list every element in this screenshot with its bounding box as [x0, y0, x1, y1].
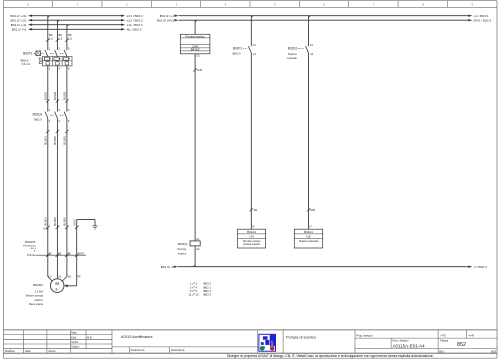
manual switch B02S1: [287, 16, 316, 230]
svg-text:B01.2/ -L21: B01.2/ -L21: [11, 18, 27, 22]
wire bus L31 with source/destination arrows: [11, 14, 143, 18]
svg-text:Verific.: Verific.: [71, 341, 79, 344]
svg-text:BK: BK: [49, 254, 53, 256]
wire phase 1 mid segment with label BL501: [44, 66, 50, 112]
svg-text:3: 3: [58, 108, 60, 112]
svg-text:1,5: 1,5: [49, 37, 53, 41]
contactor coil B52Q1: [177, 237, 200, 267]
svg-text:pompa scarico: pompa scarico: [243, 242, 260, 246]
svg-text:Rese vasca: Rese vasca: [29, 302, 44, 306]
svg-text:+ PG: + PG: [440, 334, 446, 338]
svg-text:5: 5: [274, 2, 276, 6]
svg-text:24V1 / B03.3: 24V1 / B03.3: [473, 18, 491, 22]
svg-text:B52W1: B52W1: [25, 240, 35, 244]
terminal strip X1: [43, 226, 69, 231]
svg-text:6: 6: [68, 67, 70, 71]
wire bus N1: [12, 28, 142, 32]
wire phase 2 mid segment with label BL502: [53, 66, 59, 112]
contactor B02Q1 main contacts: [33, 108, 70, 123]
svg-text:B02Q1: B02Q1: [33, 112, 43, 116]
svg-text:Elab.: Elab.: [71, 336, 77, 339]
svg-text:B03: B03: [491, 349, 496, 353]
PLC input box B41A1 scarico manuale: [294, 225, 322, 248]
svg-text:-M1: -M1: [253, 208, 258, 212]
svg-text:12: 12: [195, 293, 199, 297]
svg-text:Pompa: Pompa: [177, 247, 186, 251]
svg-text:PE: PE: [77, 275, 81, 278]
svg-text:9: 9: [472, 2, 474, 6]
svg-text:1,3 kW: 1,3 kW: [35, 289, 44, 293]
copyright note: [227, 354, 434, 358]
wire phase 3 top segment: [66, 25, 68, 50]
svg-text:BK: BK: [49, 33, 53, 37]
svg-text:1,5: 1,5: [68, 37, 72, 41]
svg-text:3~: 3~: [55, 287, 59, 291]
svg-text:14: 14: [253, 52, 256, 56]
svg-text:B01: B01: [439, 349, 444, 353]
svg-text:6: 6: [68, 119, 70, 123]
svg-text:5: 5: [68, 108, 70, 112]
svg-text:Prog. disegno:: Prog. disegno:: [356, 334, 373, 338]
svg-text:= HF: = HF: [468, 334, 474, 338]
svg-text:SAIT: SAIT: [270, 341, 274, 347]
svg-text:BL502: BL502: [53, 91, 57, 100]
svg-text:BK: BK: [68, 33, 72, 37]
svg-text:/B02.0: /B02.0: [232, 52, 241, 56]
svg-text:scarico: scarico: [34, 298, 43, 302]
svg-text:B52Q1: B52Q1: [178, 242, 188, 246]
svg-text:B41A1: B41A1: [247, 230, 256, 234]
ground earth symbol: [92, 226, 97, 229]
wire phase 1 top segment: [47, 16, 49, 50]
svg-text:2: 2: [49, 67, 51, 71]
title block right section: [286, 330, 497, 354]
svg-text:scarico: scarico: [178, 252, 187, 256]
svg-text:V1: V1: [58, 275, 62, 278]
svg-text:4: 4: [225, 2, 227, 6]
svg-text:Origine: Origine: [71, 346, 80, 349]
svg-text:-L21 / B03.3: -L21 / B03.3: [126, 18, 143, 22]
wire phase 3 mid segment with label BL503: [63, 66, 69, 112]
svg-text:manuale: manuale: [287, 56, 298, 60]
svg-text:BL504: BL504: [44, 217, 48, 226]
svg-text:M: M: [55, 281, 59, 286]
wire bus L1: [160, 14, 489, 18]
svg-text:7: 7: [373, 2, 375, 6]
svg-text:13: 13: [310, 43, 313, 47]
svg-text:Sostituito da: Sostituito da: [131, 349, 145, 352]
svg-text:-L31 / B03.3: -L31 / B03.3: [126, 14, 143, 18]
svg-text:1,5: 1,5: [59, 37, 63, 41]
svg-text:4: 4: [58, 67, 60, 71]
svg-text:B41A1: B41A1: [304, 230, 313, 234]
motor breaker B02F1: [20, 46, 72, 70]
svg-text:B52M1: B52M1: [33, 283, 43, 287]
wire phase 1 lower segment with labels BL504: [44, 118, 50, 255]
svg-text:Data: Data: [71, 332, 77, 335]
wire bus L11: [11, 23, 143, 27]
svg-text:BK: BK: [58, 254, 62, 256]
svg-text:Sostituito da: Sostituito da: [171, 349, 185, 352]
coil contact cross-reference table: [188, 282, 211, 297]
svg-text:Pompa di scarico: Pompa di scarico: [286, 335, 316, 340]
cable B52W1: [23, 240, 86, 257]
svg-text:U1: U1: [49, 275, 53, 278]
svg-text:6: 6: [323, 2, 325, 6]
svg-text:B01.9/ -3: B01.9/ -3: [161, 265, 174, 269]
svg-text:/B02.0: /B02.0: [34, 118, 43, 122]
svg-text:1: 1: [49, 46, 51, 50]
motor B52M1: [26, 255, 81, 306]
svg-text:GNYE: GNYE: [78, 254, 85, 256]
title block: [4, 330, 498, 353]
svg-text:3: 3: [58, 46, 60, 50]
svg-text:-L11 / B03.3: -L11 / B03.3: [126, 23, 143, 27]
svg-text:CH9: CH9: [197, 68, 203, 72]
svg-text:-N1 / B03.3: -N1 / B03.3: [126, 28, 142, 32]
svg-text:Scarico: Scarico: [288, 52, 297, 56]
svg-text:D09: D09: [310, 208, 315, 212]
svg-text:BL504: BL504: [44, 136, 48, 145]
svg-text:9,5mm: 9,5mm: [27, 253, 36, 257]
svg-text:BL505: BL505: [53, 217, 57, 226]
svg-text:Modifica: Modifica: [5, 349, 15, 353]
wire PE from motor to earth: [77, 220, 95, 286]
svg-text:Data: Data: [25, 349, 31, 353]
svg-text:W1: W1: [68, 275, 72, 278]
svg-text:O1: O1: [196, 54, 200, 58]
svg-text:2: 2: [49, 119, 51, 123]
svg-text:3: 3: [175, 2, 177, 6]
svg-text:Pagina: Pagina: [440, 338, 449, 342]
svg-text:BL503: BL503: [63, 91, 67, 100]
svg-text:B02F1: B02F1: [233, 47, 243, 51]
svg-text:I14: I14: [250, 235, 254, 239]
svg-text:11: 11: [188, 293, 191, 297]
svg-text:Motore pompa: Motore pompa: [26, 293, 44, 297]
svg-text:I15: I15: [306, 235, 310, 239]
wire CH9 output to coil: [193, 54, 202, 241]
terminal X1 PE tick: [73, 219, 78, 229]
svg-text:0: 0: [27, 2, 29, 6]
svg-text:M.B.: M.B.: [87, 336, 92, 339]
svg-text:5: 5: [68, 46, 70, 50]
svg-text:-3 / B03.3: -3 / B03.3: [473, 265, 487, 269]
svg-text:GNYE: GNYE: [73, 219, 76, 226]
svg-text:-L1 / B03.3: -L1 / B03.3: [473, 14, 488, 18]
svg-text:BL506: BL506: [63, 217, 67, 226]
svg-text:14: 14: [310, 52, 313, 56]
svg-text:B01.2/ -L31: B01.2/ -L31: [11, 14, 27, 18]
SAIT logo: [259, 334, 276, 351]
svg-text:2: 2: [126, 2, 128, 6]
svg-text:BL506: BL506: [63, 136, 67, 145]
svg-text:A2: A2: [196, 247, 200, 251]
svg-text:B02F1: B02F1: [23, 51, 33, 55]
wire phase 2 lower segment with labels BL505: [53, 118, 59, 255]
svg-text:B01.2/ -L11: B01.2/ -L11: [11, 23, 27, 27]
svg-text:1: 1: [49, 108, 51, 112]
svg-text:A1: A1: [196, 237, 200, 241]
node tap junctions phases: [48, 16, 69, 27]
svg-text:I4: I4: [252, 225, 255, 229]
PLC output B41A2 Pompa scarico: [180, 20, 210, 57]
svg-text:Nome: Nome: [49, 349, 56, 353]
svg-text:BL501: BL501: [44, 91, 48, 100]
wire phase 2 top segment: [56, 20, 58, 50]
svg-text:B01.9/ 24V1: B01.9/ 24V1: [157, 18, 174, 22]
svg-text:BK: BK: [68, 254, 72, 256]
svg-text:/B02.3: /B02.3: [203, 293, 212, 297]
svg-text:2,5-4 A: 2,5-4 A: [21, 62, 30, 66]
svg-text:B02S1: B02S1: [288, 47, 298, 51]
wire bus -3-: [161, 265, 487, 269]
svg-text:13: 13: [253, 43, 256, 47]
svg-text:Num. disegno: Num. disegno: [393, 338, 410, 342]
svg-text:BK: BK: [59, 33, 63, 37]
svg-text:BL505: BL505: [53, 136, 57, 145]
svg-text:Disegno di proprietà di SAIT d: Disegno di proprietà di SAIT di Mango, C…: [227, 354, 434, 358]
aux contact B02F1 13-14: [232, 16, 258, 230]
svg-text:B01.2/ -N1: B01.2/ -N1: [12, 28, 27, 32]
svg-text:A0115 Acetificatore: A0115 Acetificatore: [121, 335, 153, 339]
svg-text:4: 4: [58, 119, 60, 123]
wire labels BK 1,5 with ticks: [46, 33, 72, 42]
svg-text:B01.9/ -L1: B01.9/ -L1: [160, 14, 175, 18]
svg-text:8: 8: [422, 2, 424, 6]
svg-text:I7: I7: [310, 225, 313, 229]
svg-text:852: 852: [457, 342, 466, 348]
wire bus 24V1: [157, 18, 491, 22]
svg-text:Scarico manuale: Scarico manuale: [299, 239, 319, 243]
svg-text:A0115A-E01-A4: A0115A-E01-A4: [393, 343, 426, 348]
svg-text:1: 1: [77, 2, 79, 6]
PLC input box B41A1 termico motore: [238, 225, 266, 248]
wire bus L21: [11, 18, 143, 22]
wire phase 3 lower segment with labels BL506: [63, 118, 69, 255]
